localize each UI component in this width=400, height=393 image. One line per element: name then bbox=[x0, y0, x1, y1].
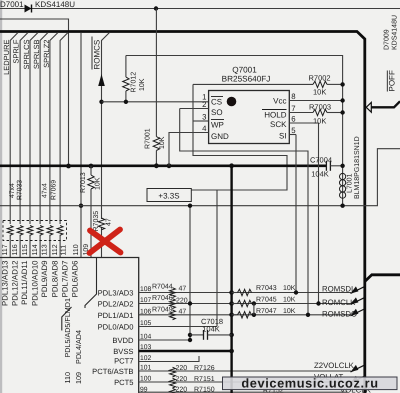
wire joining R7045/R7047 right ends bbox=[253, 304, 255, 315]
resistor R7044 (series on row108) bbox=[170, 288, 176, 298]
svg-text:PDL0/AD0: PDL0/AD0 bbox=[98, 323, 134, 332]
node BVSS bbox=[229, 349, 234, 354]
svg-text:113: 113 bbox=[42, 244, 49, 255]
svg-text:HOLD: HOLD bbox=[264, 111, 286, 120]
svg-text:PCT6/ASTB: PCT6/ASTB bbox=[92, 367, 133, 376]
svg-text:ROMSDO: ROMSDO bbox=[322, 309, 357, 318]
svg-text:R7043: R7043 bbox=[256, 285, 277, 292]
svg-text:104: 104 bbox=[140, 334, 152, 341]
node x68.5 on gnd rail bbox=[66, 164, 71, 169]
pin 7 stub bbox=[289, 112, 313, 114]
resistor R7049 (series on row106) bbox=[170, 310, 176, 320]
label R7001 10K bbox=[144, 128, 166, 149]
resistor R7001 bbox=[153, 9, 159, 166]
label R7045 10K bbox=[256, 297, 296, 304]
arrow Z2VOLCLK bbox=[351, 365, 365, 372]
wire Vcc rail top (R7012 top to right) bbox=[126, 56, 343, 77]
resistor R7150 bbox=[170, 388, 176, 393]
label R7047 10K bbox=[256, 308, 296, 315]
svg-text:R7003: R7003 bbox=[309, 103, 331, 112]
svg-text:103: 103 bbox=[140, 344, 152, 351]
pin 5 stub bbox=[289, 134, 296, 136]
node row107 bbox=[229, 301, 234, 306]
svg-text:111: 111 bbox=[60, 245, 67, 256]
svg-text:117: 117 bbox=[2, 244, 9, 255]
svg-text:R7046: R7046 bbox=[152, 295, 173, 302]
node R7045 right bbox=[252, 301, 256, 305]
svg-text:ROMCLK: ROMCLK bbox=[322, 298, 356, 307]
svg-text:D7001: D7001 bbox=[0, 0, 24, 9]
svg-text:SPRLZ2: SPRLZ2 bbox=[42, 39, 51, 67]
svg-text:47: 47 bbox=[179, 286, 187, 293]
pin labels inside bbox=[211, 97, 287, 142]
arrow ROMSDI bbox=[351, 286, 365, 293]
resistor R7045 bbox=[232, 300, 252, 306]
node drop row107 bbox=[188, 301, 192, 305]
node thick vertical branch bbox=[229, 163, 234, 168]
svg-text:PDL12/AD12: PDL12/AD12 bbox=[10, 261, 19, 307]
node SCK to ROMCLK bbox=[316, 301, 320, 305]
label 47x4 R7033 bbox=[9, 180, 24, 200]
wire 6th column bbox=[60, 33, 68, 258]
arrow ROMCLK bbox=[351, 297, 365, 304]
svg-text:102: 102 bbox=[140, 355, 152, 362]
svg-text:101: 101 bbox=[140, 365, 152, 372]
pin names inside top edge bbox=[0, 260, 79, 306]
name 109 PDL4/AD4 bbox=[74, 330, 83, 384]
wire row 104 / BVDD bbox=[139, 339, 190, 341]
capacitor C7004 bbox=[326, 161, 342, 171]
wire row 108 / ROMSDI bbox=[139, 292, 351, 294]
svg-text:BLM18PG181SN1D: BLM18PG181SN1D bbox=[354, 136, 361, 199]
svg-text:47: 47 bbox=[105, 218, 112, 226]
svg-text:105: 105 bbox=[140, 320, 152, 327]
pin numbers right bbox=[291, 92, 296, 135]
svg-text:SPRLSB: SPRLSB bbox=[32, 40, 41, 70]
wire SO drop bbox=[180, 109, 308, 315]
resistor R7002 bbox=[193, 81, 343, 87]
arrow VOLLAT bbox=[351, 376, 365, 383]
svg-text:114: 114 bbox=[32, 244, 39, 255]
pin numbers on stubs bbox=[140, 286, 152, 393]
node R7013 top bbox=[89, 164, 94, 169]
svg-text:SCK: SCK bbox=[270, 120, 287, 129]
left page edge band bbox=[0, 0, 2, 393]
svg-text:PCT7: PCT7 bbox=[114, 357, 133, 366]
IC box edge bbox=[0, 258, 139, 393]
thick bus stub bottom right bbox=[365, 275, 400, 282]
svg-text:107: 107 bbox=[140, 297, 152, 304]
wire row 106 / ROMSDO bbox=[139, 314, 351, 316]
resistor array R7069 zigzags bbox=[47, 226, 63, 236]
svg-text:116: 116 bbox=[12, 244, 19, 255]
svg-text:PDL11/AD11: PDL11/AD11 bbox=[20, 261, 29, 305]
wire SCK drop bbox=[318, 123, 320, 304]
wire ROMCS bbox=[98, 33, 109, 258]
svg-text:PDL4/AD4: PDL4/AD4 bbox=[74, 330, 83, 364]
wire row 107 / ROMCLK bbox=[139, 303, 351, 305]
label D7009 KDS4148U bbox=[383, 15, 398, 50]
svg-text:R7035: R7035 bbox=[93, 211, 100, 232]
svg-text:3: 3 bbox=[202, 112, 206, 121]
resistor array R7033 zigzags bbox=[7, 226, 43, 236]
wire CS net horizontal bbox=[102, 101, 209, 103]
svg-text:47x4: 47x4 bbox=[41, 183, 48, 198]
svg-text:Q7001: Q7001 bbox=[232, 66, 257, 75]
wire +3.3S horizontal bbox=[0, 149, 400, 206]
resistor R7047 bbox=[232, 312, 252, 318]
node R7012 bottom bbox=[124, 100, 128, 104]
resistor R7035 bbox=[98, 218, 104, 230]
svg-text:10K: 10K bbox=[313, 117, 326, 126]
svg-text:R7044: R7044 bbox=[152, 284, 173, 291]
resistor R7046 (series on row107) bbox=[170, 299, 176, 309]
svg-text:10K: 10K bbox=[313, 88, 326, 97]
svg-text:R7069: R7069 bbox=[50, 180, 57, 200]
wire row 99 bbox=[139, 391, 348, 393]
svg-text:PDL1/AD1: PDL1/AD1 bbox=[98, 311, 134, 320]
IC inner staircase outline bbox=[85, 258, 97, 309]
svg-text:100: 100 bbox=[140, 376, 152, 383]
wire thick vertical bbox=[230, 166, 232, 393]
svg-text:SO: SO bbox=[211, 108, 223, 117]
wire vcc rail vertical bbox=[342, 76, 344, 206]
label POFF (overline) bbox=[387, 70, 396, 91]
svg-text:+3.3S: +3.3S bbox=[158, 192, 179, 201]
svg-text:8: 8 bbox=[291, 92, 295, 101]
svg-text:KDS4148U: KDS4148U bbox=[391, 15, 398, 50]
svg-text:115: 115 bbox=[22, 244, 29, 255]
wire +3.3S drop to BVDD bbox=[189, 205, 191, 341]
svg-text:10K: 10K bbox=[95, 177, 102, 190]
svg-text:PDL10/AD10: PDL10/AD10 bbox=[30, 260, 39, 306]
IC inner staircase outline lower bbox=[62, 307, 72, 331]
svg-text:7: 7 bbox=[291, 104, 295, 113]
node SI to ROMSDI bbox=[294, 290, 298, 294]
svg-text:104K: 104K bbox=[311, 170, 329, 179]
resistor R7126 bbox=[170, 367, 176, 377]
svg-text:PDL8/AD8: PDL8/AD8 bbox=[50, 261, 59, 298]
wire SPRLF bbox=[20, 33, 28, 258]
svg-text:R7012: R7012 bbox=[130, 72, 137, 93]
label R7013 10K bbox=[80, 172, 102, 193]
wire second horizontal bbox=[0, 19, 69, 166]
wire SI drop bbox=[295, 135, 297, 293]
svg-text:PDL13/AD13: PDL13/AD13 bbox=[0, 261, 9, 307]
label 47x4 R7069 bbox=[41, 180, 57, 200]
pin 6 stub bbox=[289, 122, 318, 124]
svg-text:10K: 10K bbox=[159, 136, 166, 149]
+3.3S label box bbox=[147, 189, 191, 202]
pin 8 stub bbox=[289, 100, 342, 102]
watermark devicemusic.ucoz.ru bbox=[223, 376, 398, 391]
svg-text:BVDD: BVDD bbox=[112, 336, 134, 345]
svg-text:SI: SI bbox=[279, 132, 287, 141]
svg-text:PDL6/AD6: PDL6/AD6 bbox=[71, 261, 80, 298]
wire SPRLSB bbox=[40, 33, 48, 258]
red X mark bbox=[90, 230, 121, 254]
node R7002 right bbox=[340, 82, 344, 86]
wire SPRLZ2 bbox=[50, 33, 58, 258]
svg-text:PDL9/AD9: PDL9/AD9 bbox=[40, 261, 49, 298]
node R7047 right bbox=[252, 313, 256, 317]
node R7001 bottom bbox=[154, 163, 159, 168]
svg-text:BVSS: BVSS bbox=[113, 347, 133, 356]
label C7018 104K bbox=[201, 317, 223, 334]
svg-text:108: 108 bbox=[140, 286, 152, 293]
svg-text:D7009: D7009 bbox=[383, 29, 390, 50]
node row106 bbox=[229, 313, 234, 318]
svg-text:R7001: R7001 bbox=[144, 128, 151, 149]
node C7018 right bbox=[229, 333, 234, 338]
name 110 PDL5/AD5/FLMD1 bbox=[63, 298, 72, 383]
svg-text:PDL3/AD3: PDL3/AD3 bbox=[98, 289, 134, 298]
node L7001 bottom bbox=[340, 204, 344, 208]
resistor R7012 bbox=[123, 56, 129, 102]
svg-text:R7002: R7002 bbox=[309, 74, 331, 83]
node row108 bbox=[229, 290, 234, 295]
node Vcc pin8 bbox=[340, 98, 344, 102]
node ROMCS / CS net bbox=[99, 100, 103, 104]
svg-text:PDL5/AD5/FLMD1: PDL5/AD5/FLMD1 bbox=[63, 298, 72, 358]
svg-text:SPRLCS: SPRLCS bbox=[22, 40, 31, 70]
dashed box bbox=[3, 221, 67, 241]
wire row 100 bbox=[139, 381, 351, 383]
label R7043 10K bbox=[256, 285, 296, 292]
svg-text:2: 2 bbox=[202, 100, 206, 109]
node +3.3S drop top bbox=[188, 204, 192, 208]
label ROMCS (overline) bbox=[92, 37, 101, 70]
IC box Q7001 bbox=[209, 91, 290, 144]
svg-text:WP: WP bbox=[211, 121, 224, 130]
label R7012 10K bbox=[130, 72, 146, 93]
svg-text:220: 220 bbox=[176, 387, 188, 393]
svg-text:112: 112 bbox=[52, 244, 59, 255]
svg-text:R7126: R7126 bbox=[194, 365, 215, 372]
wire GND rail thick bbox=[0, 165, 326, 168]
right side pin names inside bbox=[92, 289, 134, 388]
wire WP pullup vertical bbox=[192, 84, 288, 190]
svg-text:CS: CS bbox=[211, 98, 222, 107]
svg-text:6: 6 bbox=[291, 114, 295, 123]
node +3.3S to pin110 bbox=[79, 204, 83, 208]
svg-text:106: 106 bbox=[140, 308, 152, 315]
svg-text:220: 220 bbox=[176, 365, 188, 372]
diode D7001 bbox=[25, 5, 32, 13]
svg-text:R7045: R7045 bbox=[256, 297, 277, 304]
svg-text:47x4: 47x4 bbox=[9, 183, 16, 198]
svg-text:ROMCS: ROMCS bbox=[92, 40, 101, 70]
POFF arrow assembly bbox=[366, 101, 400, 112]
pin 3 stub bbox=[193, 120, 209, 122]
svg-text:110: 110 bbox=[73, 244, 80, 255]
svg-text:R7033: R7033 bbox=[16, 180, 23, 200]
svg-text:POFF: POFF bbox=[388, 70, 397, 91]
pin 2 stub bbox=[180, 108, 209, 110]
wire row 102 / PCT7 bbox=[139, 356, 199, 362]
wire LEDPURE bbox=[10, 33, 18, 258]
label L7001 BLM18PG181SN1D bbox=[346, 136, 361, 199]
svg-text:BR25S640FJ: BR25S640FJ bbox=[222, 75, 271, 84]
svg-text:104K: 104K bbox=[202, 325, 220, 334]
svg-text:Vcc: Vcc bbox=[273, 97, 286, 106]
svg-text:R7047: R7047 bbox=[256, 308, 277, 315]
node drop BVDD bbox=[188, 338, 192, 342]
wire top D7001 net bbox=[0, 8, 400, 10]
svg-text:R7013: R7013 bbox=[80, 172, 87, 193]
svg-text:SPRLF: SPRLF bbox=[12, 39, 21, 64]
node dot on D7001 net bbox=[154, 6, 158, 10]
svg-text:KDS4148U: KDS4148U bbox=[35, 0, 75, 9]
resistor R7151 bbox=[170, 378, 176, 388]
svg-text:R7049: R7049 bbox=[152, 306, 173, 313]
pin numbers left bbox=[202, 92, 207, 133]
svg-text:R7150: R7150 bbox=[194, 387, 215, 393]
svg-text:47: 47 bbox=[179, 308, 187, 315]
node C7004 right bbox=[340, 164, 344, 168]
svg-text:99: 99 bbox=[140, 387, 148, 393]
svg-text:R7151: R7151 bbox=[194, 376, 215, 383]
svg-text:10K: 10K bbox=[283, 285, 296, 292]
svg-text:110: 110 bbox=[63, 372, 72, 383]
svg-text:PDL7/AD7: PDL7/AD7 bbox=[60, 261, 69, 298]
capacitor C7018 bbox=[190, 330, 232, 340]
arrow ROMSDO bbox=[351, 309, 365, 316]
node drop C7018 bbox=[188, 333, 192, 337]
svg-text:10K: 10K bbox=[139, 78, 146, 91]
svg-text:PCT5: PCT5 bbox=[114, 378, 133, 387]
label R7035 47 bbox=[93, 211, 113, 232]
svg-text:10K: 10K bbox=[283, 308, 296, 315]
inductor L7001 bbox=[340, 173, 346, 198]
svg-text:ROMSDI: ROMSDI bbox=[322, 285, 353, 294]
svg-text:109: 109 bbox=[74, 372, 83, 384]
pin1 marker dot bbox=[227, 97, 237, 107]
svg-text:5: 5 bbox=[291, 126, 296, 135]
resistor R7003 bbox=[313, 109, 343, 115]
svg-text:GND: GND bbox=[211, 132, 229, 141]
svg-text:10K: 10K bbox=[283, 297, 296, 304]
svg-text:220: 220 bbox=[176, 376, 188, 383]
svg-text:4: 4 bbox=[202, 124, 207, 133]
svg-text:devicemusic.ucoz.ru: devicemusic.ucoz.ru bbox=[241, 376, 378, 391]
wire SPRLCS bbox=[30, 33, 38, 258]
wire pin110 column bbox=[80, 33, 82, 258]
wire row 105 bbox=[139, 326, 217, 328]
svg-text:PDL2/AD2: PDL2/AD2 bbox=[98, 300, 134, 309]
wire row 101 / Z2VOLCLK bbox=[139, 370, 351, 372]
node R7003 right bbox=[340, 110, 344, 114]
resistor R7013 bbox=[88, 166, 94, 258]
node GND pin4 bbox=[167, 163, 172, 168]
svg-text:L7001: L7001 bbox=[346, 173, 353, 193]
pin 4 stub bbox=[169, 133, 209, 166]
resistor R7043 bbox=[232, 289, 252, 295]
svg-text:LEDPURE: LEDPURE bbox=[2, 40, 11, 75]
svg-text:C7004: C7004 bbox=[310, 156, 332, 165]
node SO to ROMSDO bbox=[306, 313, 310, 317]
svg-text:220: 220 bbox=[176, 298, 188, 305]
wire row 103 / BVSS thick bbox=[139, 350, 232, 352]
svg-text:Z2VOLCLK: Z2VOLCLK bbox=[314, 361, 355, 370]
